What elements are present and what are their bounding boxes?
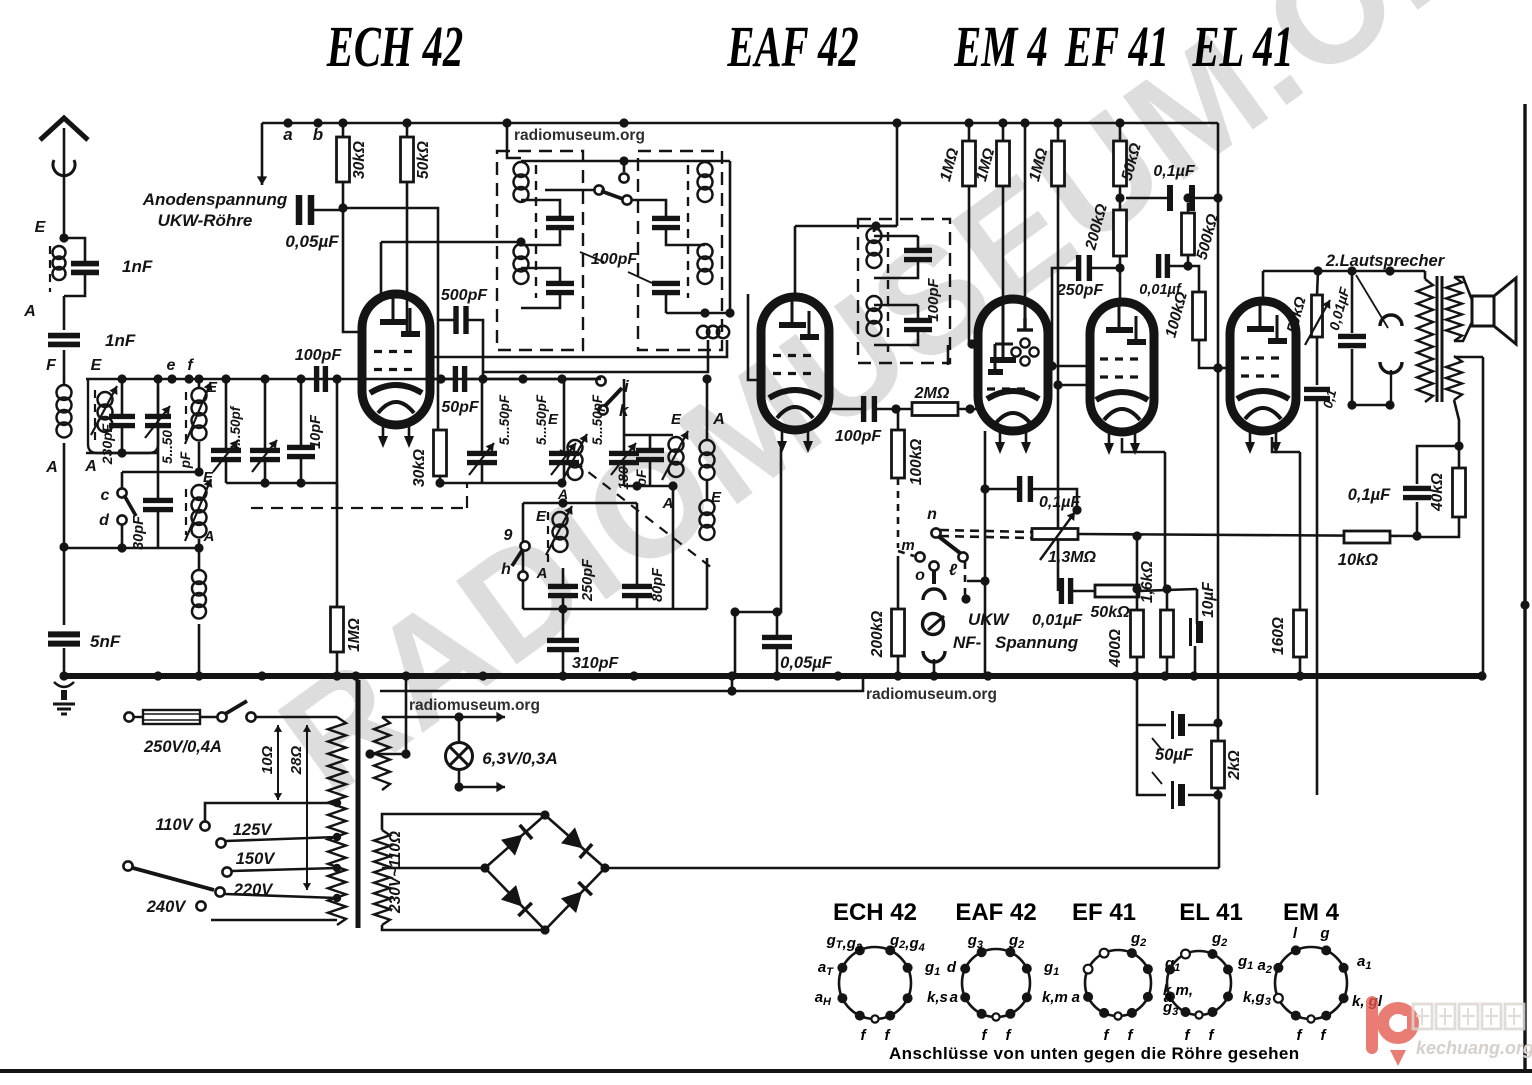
label 0,01µf bbox=[1139, 282, 1183, 298]
wire bbox=[1458, 446, 1461, 468]
svg-text:2MΩ: 2MΩ bbox=[914, 385, 950, 402]
resistor 200kΩ AF bbox=[892, 609, 905, 656]
junction bbox=[725, 308, 734, 317]
label 200kΩ bbox=[1082, 202, 1111, 252]
kechuang.org text bbox=[1416, 1038, 1532, 1058]
label E bbox=[671, 411, 682, 428]
wire EF41 plate bbox=[1119, 256, 1122, 302]
wire bbox=[563, 379, 566, 453]
pointer bbox=[1152, 738, 1162, 784]
label 400Ω bbox=[1107, 629, 1124, 668]
label E bbox=[35, 219, 47, 236]
osc coil core dash bbox=[547, 512, 549, 568]
wire bbox=[157, 379, 160, 416]
svg-text:g: g bbox=[1319, 925, 1329, 942]
diode D3 bbox=[561, 882, 592, 913]
junction bbox=[980, 576, 989, 585]
svg-text:EL 41: EL 41 bbox=[1179, 899, 1243, 926]
label 2kΩ bbox=[1226, 750, 1243, 780]
junction bbox=[1183, 193, 1192, 202]
svg-text:E: E bbox=[91, 357, 103, 374]
label A bbox=[557, 486, 568, 502]
svg-text:1,6kΩ: 1,6kΩ bbox=[1139, 561, 1156, 603]
label 50kΩ bbox=[1119, 141, 1145, 182]
dashed link bbox=[897, 478, 900, 548]
wire bbox=[562, 568, 565, 586]
tube ECH42 bbox=[362, 294, 430, 425]
capacitor 100pF mixer bbox=[317, 366, 326, 392]
tube ECH42 internals bbox=[370, 297, 422, 413]
wire bbox=[1192, 197, 1218, 200]
junction bbox=[891, 404, 900, 413]
resistor 400Ω bbox=[1131, 610, 1144, 657]
label ℓ bbox=[949, 562, 958, 579]
wire bbox=[1454, 322, 1472, 341]
junction bbox=[1347, 400, 1356, 409]
jack stem bbox=[1390, 370, 1392, 405]
wire bbox=[734, 612, 737, 676]
svg-text:f: f bbox=[1185, 1027, 1192, 1044]
svg-text:230pF: 230pF bbox=[99, 423, 115, 465]
junction bbox=[702, 374, 711, 383]
terminal bbox=[619, 173, 628, 182]
svg-text:250pF: 250pF bbox=[580, 558, 596, 602]
wire bbox=[873, 228, 876, 232]
junction bbox=[283, 118, 292, 127]
wire bbox=[336, 508, 339, 607]
svg-text:radiomuseum.org: radiomuseum.org bbox=[409, 697, 540, 714]
svg-text:220V: 220V bbox=[233, 881, 275, 899]
wire main ground bus bbox=[61, 673, 1482, 679]
junction bbox=[1347, 266, 1356, 275]
arrow heater a bbox=[459, 712, 505, 722]
wire bbox=[624, 485, 673, 488]
wire bbox=[440, 482, 562, 485]
wire bbox=[405, 676, 408, 754]
label 1MΩ bbox=[973, 146, 998, 183]
svg-text:d: d bbox=[99, 512, 110, 529]
label 180 bbox=[615, 466, 631, 490]
wire bbox=[706, 479, 709, 500]
svg-text:ECH 42: ECH 42 bbox=[326, 14, 463, 79]
label 0,1µF bbox=[1348, 486, 1391, 504]
wire bbox=[666, 228, 705, 245]
wire bbox=[1137, 725, 1166, 795]
svg-text:kechuang.org: kechuang.org bbox=[1416, 1038, 1532, 1058]
svg-text:5...50: 5...50 bbox=[160, 430, 175, 464]
terminal bbox=[222, 867, 231, 876]
label UKW bbox=[968, 610, 1011, 629]
tube EL41 cathode arrows bbox=[1245, 432, 1281, 454]
junction bbox=[1454, 441, 1463, 450]
svg-text:pF: pF bbox=[178, 451, 193, 469]
jack symbol bottom bbox=[1380, 362, 1402, 373]
svg-text:aH: aH bbox=[815, 989, 832, 1008]
capacitor IF1 d bbox=[652, 283, 680, 292]
wire bbox=[521, 228, 560, 245]
wire bbox=[1136, 676, 1139, 725]
svg-text:o: o bbox=[915, 567, 925, 584]
junction bbox=[1213, 363, 1222, 372]
label m bbox=[901, 537, 914, 554]
svg-text:m: m bbox=[901, 537, 914, 554]
capacitor 0,01µF AF bbox=[1061, 578, 1070, 604]
wire bbox=[1136, 536, 1139, 589]
resistor 10kΩ bbox=[1344, 531, 1390, 543]
label 9 bbox=[504, 527, 513, 544]
svg-text:5...50pF: 5...50pF bbox=[590, 394, 605, 445]
svg-text:0,1µF: 0,1µF bbox=[1153, 163, 1195, 180]
svg-text:310pF: 310pF bbox=[572, 655, 619, 672]
tube EM4 arcs bbox=[987, 391, 1039, 424]
wire bbox=[795, 225, 897, 228]
wire bbox=[897, 656, 900, 676]
terminal bbox=[958, 552, 967, 561]
wire bbox=[1072, 590, 1095, 593]
resistor 200kΩ bbox=[1114, 210, 1127, 256]
wire bbox=[562, 609, 565, 640]
svg-text:1nF: 1nF bbox=[122, 257, 153, 276]
junction bbox=[700, 308, 709, 317]
svg-text:d: d bbox=[947, 959, 957, 976]
svg-text:f: f bbox=[861, 1027, 868, 1044]
variable coil filter3 arrow bbox=[185, 479, 212, 541]
terminal bbox=[598, 405, 607, 414]
terminal bbox=[117, 515, 126, 524]
junction bbox=[1115, 263, 1124, 272]
trimmer 5..50pF mid1 bbox=[467, 443, 497, 475]
pinout circle EL 41 bbox=[1167, 951, 1231, 1015]
wire bbox=[468, 320, 483, 379]
junction bbox=[117, 374, 126, 383]
junction bbox=[833, 671, 842, 680]
junction bbox=[1213, 718, 1222, 727]
pinout circle EF 41 bbox=[1085, 950, 1151, 1016]
label h bbox=[501, 561, 511, 578]
wire bbox=[1139, 589, 1197, 591]
junction bbox=[619, 118, 628, 127]
junction bbox=[983, 671, 992, 680]
wire bbox=[1031, 489, 1077, 508]
terminal bbox=[217, 712, 226, 721]
junction bbox=[194, 671, 203, 680]
wire bbox=[874, 304, 918, 307]
variable coil filter3 bbox=[192, 485, 207, 538]
wire bbox=[1090, 267, 1120, 270]
svg-text:0,01µF: 0,01µF bbox=[1032, 612, 1083, 629]
wire signal line bbox=[86, 378, 601, 381]
junction bbox=[296, 374, 305, 383]
wire bbox=[562, 650, 565, 676]
jack symbol top bbox=[1380, 315, 1402, 326]
svg-text:NF-: NF- bbox=[953, 633, 982, 652]
wire bbox=[665, 293, 668, 313]
tuning gang dashed frame bbox=[251, 507, 467, 509]
wire bbox=[63, 350, 66, 385]
svg-text:1nF: 1nF bbox=[105, 331, 136, 350]
IF2 coil a bbox=[867, 228, 882, 268]
junction bbox=[632, 481, 641, 490]
wire bbox=[1188, 724, 1218, 727]
junction bbox=[478, 671, 487, 680]
wire bbox=[1218, 795, 1221, 868]
svg-text:EF 41: EF 41 bbox=[1064, 14, 1169, 79]
junction bbox=[727, 671, 736, 680]
junction bbox=[296, 478, 305, 487]
label 160Ω bbox=[1270, 617, 1287, 655]
label E bbox=[91, 357, 103, 374]
wire bbox=[157, 472, 160, 500]
junction bbox=[153, 374, 162, 383]
svg-text:10pF: 10pF bbox=[308, 414, 324, 449]
svg-text:10µF: 10µF bbox=[1200, 582, 1217, 618]
label 200kΩ bbox=[869, 611, 886, 659]
label 5...50pf bbox=[228, 405, 243, 453]
svg-text:0,05µF: 0,05µF bbox=[780, 654, 833, 672]
arrow 28Ω bbox=[303, 725, 311, 890]
label 100kΩ bbox=[908, 439, 925, 486]
wire EM4 cathode bbox=[984, 431, 987, 676]
wire ground row bbox=[64, 547, 199, 550]
diode D4 bbox=[501, 885, 532, 916]
wire bbox=[198, 539, 201, 548]
resistor 50kΩ body bbox=[401, 137, 414, 182]
pinout title EM 4 bbox=[1283, 899, 1340, 926]
svg-text:100pF: 100pF bbox=[835, 428, 882, 445]
wire bbox=[264, 379, 267, 450]
svg-text:E: E bbox=[536, 508, 547, 525]
svg-text:Spannung: Spannung bbox=[995, 633, 1079, 652]
junction bbox=[929, 671, 938, 680]
arrow Anodenspannung feed bbox=[257, 123, 267, 185]
junction bbox=[221, 374, 230, 383]
resistor 30kΩ osc bbox=[434, 430, 447, 476]
junction bbox=[1385, 266, 1394, 275]
wire bbox=[1352, 404, 1390, 407]
bridge rectifier frame bbox=[485, 815, 605, 930]
wire bbox=[1217, 788, 1220, 795]
terminal bbox=[520, 541, 529, 550]
svg-text:a1: a1 bbox=[1357, 953, 1371, 972]
wire B+ rail bbox=[1217, 123, 1220, 723]
wire bbox=[481, 379, 484, 453]
svg-text:2kΩ: 2kΩ bbox=[1226, 750, 1243, 780]
kechuang characters bbox=[1413, 1004, 1524, 1029]
variable oscillator coil bbox=[553, 512, 568, 552]
junction bbox=[338, 118, 347, 127]
transformer core bar bbox=[356, 680, 361, 928]
arrow heater b bbox=[459, 782, 505, 792]
junction bbox=[1412, 531, 1421, 540]
wire ECH42 grid top bbox=[380, 242, 383, 294]
label UKW-Röhre bbox=[158, 211, 253, 230]
wire bbox=[776, 612, 779, 637]
svg-text:80pF: 80pF bbox=[650, 567, 666, 602]
svg-text:50kΩ: 50kΩ bbox=[1284, 295, 1310, 335]
svg-text:100kΩ: 100kΩ bbox=[908, 439, 925, 486]
wire bbox=[623, 379, 626, 453]
wire bbox=[1416, 502, 1419, 536]
wire bbox=[522, 503, 525, 609]
junction bbox=[557, 478, 566, 487]
wire right border bbox=[1523, 104, 1526, 1071]
svg-text:ECH 42: ECH 42 bbox=[833, 899, 917, 926]
wire EL41 cathode bbox=[1272, 437, 1300, 452]
wire bbox=[1196, 589, 1199, 624]
junction bbox=[772, 671, 781, 680]
label 1MΩ bbox=[346, 618, 363, 652]
border bottom bbox=[0, 1069, 1532, 1073]
wire bbox=[636, 596, 639, 609]
wire bbox=[63, 648, 66, 676]
label A bbox=[84, 458, 97, 475]
pinout circle ECH 42 bbox=[839, 947, 911, 1019]
capacitor IF2 b bbox=[904, 320, 932, 329]
label 100pF bbox=[591, 251, 638, 268]
svg-text:5...50pF: 5...50pF bbox=[534, 394, 549, 445]
voltage selector lever bbox=[133, 868, 214, 890]
junction bbox=[402, 118, 411, 127]
wire bbox=[198, 624, 201, 676]
trimmer 5..50pF mid2 bbox=[549, 443, 579, 475]
wire bbox=[917, 305, 920, 320]
wire EF41 cathode bbox=[1122, 438, 1165, 452]
junction bbox=[518, 374, 527, 383]
wire bbox=[967, 580, 985, 583]
label 10Ω bbox=[259, 746, 276, 775]
junction bbox=[1020, 118, 1029, 127]
wire bbox=[1424, 271, 1427, 279]
wire bbox=[1454, 400, 1459, 446]
tube EM4 cathode arrows bbox=[995, 431, 1031, 454]
svg-text:10kΩ: 10kΩ bbox=[1338, 551, 1379, 569]
junction bbox=[998, 118, 1007, 127]
junction bbox=[117, 543, 126, 552]
variable coil mid bbox=[568, 440, 583, 480]
svg-text:f: f bbox=[1297, 1027, 1304, 1044]
capacitor IF1 b bbox=[546, 283, 574, 292]
electrolytic 50µF b bbox=[1173, 781, 1182, 809]
wire bbox=[1188, 794, 1218, 797]
junction bbox=[194, 374, 203, 383]
junction bbox=[117, 448, 126, 457]
wire bbox=[545, 189, 594, 192]
junction bbox=[629, 671, 638, 680]
tube EF41 internals bbox=[1096, 305, 1148, 420]
wire bbox=[336, 379, 339, 508]
svg-text:a: a bbox=[1072, 989, 1080, 1006]
variable coil filter2 bbox=[192, 388, 207, 441]
resistor 1,3MΩ bbox=[1032, 529, 1078, 540]
junction bbox=[964, 118, 973, 127]
resistor 40kΩ bbox=[1453, 468, 1466, 517]
junction bbox=[184, 374, 193, 383]
junction bbox=[730, 607, 739, 616]
label 10kΩ bbox=[1338, 551, 1379, 569]
svg-text:EL 41: EL 41 bbox=[1192, 14, 1294, 79]
wire bbox=[731, 676, 734, 691]
mains switch lever bbox=[225, 701, 247, 714]
filter3 coil core dash bbox=[185, 489, 187, 535]
junction bbox=[59, 542, 68, 551]
junction bbox=[1115, 193, 1124, 202]
junction bbox=[365, 749, 374, 758]
pinout labels EL 41 bbox=[1164, 930, 1271, 1044]
wire bbox=[563, 463, 566, 483]
label 80pF bbox=[650, 567, 666, 602]
watermark radiomuseum.org mid bbox=[409, 697, 540, 714]
wire IF1 feed bbox=[507, 123, 521, 158]
resistor 1MΩ AVC bbox=[331, 607, 344, 652]
jack symbol NF bbox=[923, 651, 945, 662]
pinout title EF 41 bbox=[1072, 899, 1136, 926]
wire bbox=[649, 435, 652, 450]
label 220V bbox=[233, 881, 275, 899]
junction bbox=[338, 203, 347, 212]
label E bbox=[536, 508, 547, 525]
svg-text:240V: 240V bbox=[146, 898, 188, 916]
wire bbox=[958, 408, 978, 411]
tube EM4 grid dash bbox=[987, 387, 1032, 390]
label 5...50pF bbox=[590, 394, 605, 445]
svg-text:e: e bbox=[167, 357, 176, 374]
label 10pF bbox=[308, 414, 324, 449]
svg-text:g1: g1 bbox=[1237, 953, 1253, 972]
label 5...50pF bbox=[497, 394, 512, 445]
tuning capacitor 2 bbox=[250, 440, 280, 472]
wire bbox=[198, 379, 201, 388]
dashed link l bbox=[964, 562, 967, 597]
wire bbox=[897, 556, 900, 609]
junction bbox=[167, 374, 176, 383]
svg-text:150V: 150V bbox=[236, 850, 277, 868]
svg-text:n: n bbox=[927, 506, 937, 523]
wire IF1 out 1 bbox=[430, 340, 727, 357]
resistor 160Ω bbox=[1294, 610, 1307, 657]
junction bbox=[436, 374, 445, 383]
wire bbox=[200, 716, 218, 719]
IF1 primary coil a bbox=[514, 162, 529, 202]
wire bbox=[623, 463, 626, 486]
junction bbox=[1183, 261, 1192, 270]
junction bbox=[480, 863, 489, 872]
label 500pF bbox=[441, 287, 488, 304]
junction bbox=[1213, 363, 1222, 372]
heater winding 6,3V bbox=[374, 717, 390, 790]
caption Anschlüsse bbox=[889, 1044, 1300, 1063]
svg-text:0,05µF: 0,05µF bbox=[285, 232, 339, 251]
dashed frame vertical bbox=[466, 484, 468, 508]
junction bbox=[516, 237, 525, 246]
terminal bbox=[124, 712, 133, 721]
junction bbox=[435, 478, 444, 487]
title EM 4 bbox=[953, 14, 1047, 79]
svg-text:9: 9 bbox=[504, 527, 513, 544]
output transformer primary bbox=[1417, 279, 1433, 402]
wire bbox=[1136, 589, 1139, 610]
wire bbox=[649, 460, 652, 486]
label 30kΩ bbox=[351, 141, 368, 179]
svg-text:EM 4: EM 4 bbox=[953, 14, 1047, 79]
wire bbox=[829, 408, 863, 411]
wire back bias bbox=[1316, 399, 1319, 795]
junction bbox=[1053, 118, 1062, 127]
wire bbox=[874, 225, 897, 228]
label 50kΩ bbox=[1090, 604, 1130, 621]
transformer primary winding bbox=[328, 717, 346, 925]
tube EF41 bbox=[1090, 302, 1154, 432]
junction bbox=[772, 607, 781, 616]
